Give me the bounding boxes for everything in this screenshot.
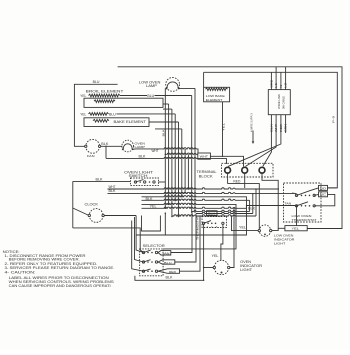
wire lamp right to bus [179,87,195,89]
wire chain B [172,189,256,270]
label YEL broil [80,94,86,98]
oven light switch body [131,178,159,186]
label TERMINAL BLOCK [197,170,217,178]
wire thermostat YEL drop [296,205,298,226]
wire low bake drop [222,102,224,157]
wire clock bottom run [73,228,144,253]
low oven thermostat body [284,183,322,222]
svg-text:GRD: GRD [271,80,274,88]
wire indicator right lead [230,208,235,268]
svg-text:YEL: YEL [80,94,86,98]
wire switch to bus [159,181,166,183]
svg-text:TAN: TAN [284,202,291,206]
wire row W5 [142,203,237,249]
label BLK fan [101,142,109,146]
label YEL row W6 [150,205,157,209]
svg-text:GRN: GRN [285,124,288,132]
lamp low oven filament [167,82,178,88]
label lead BLK [271,123,274,132]
svg-text:BLK: BLK [101,142,109,146]
lamp low oven indicator envelope [259,225,270,236]
lamp oven indicator envelope [214,260,228,274]
svg-text:BLOCK: BLOCK [199,174,214,178]
selector body [140,249,164,276]
label BLU top [93,80,100,84]
lamp oven terminals [122,148,134,150]
label BLU broil [147,94,154,98]
label BLK clock row [109,189,117,193]
wire RED row [228,184,260,231]
label BAKE ELEMENT [114,120,147,124]
wire clock right lead [104,215,136,217]
wire low oven ind right lead [272,228,285,230]
svg-text:LIGHT: LIGHT [274,242,286,246]
power cord terminal box [268,90,290,115]
label YEL bake [80,112,86,116]
resistor bake element run2 [93,119,109,122]
tag BLU [158,260,175,265]
wire center loop inner [142,216,161,232]
tag TAN [158,251,171,256]
wire thermostat right leg [221,225,223,261]
wire supply lead 4 [285,115,287,133]
label WHT clock row [109,185,117,189]
label GRD [271,80,274,88]
svg-text:RED: RED [233,180,240,184]
selector row3 contacts [142,269,157,272]
svg-text:BLK: BLK [96,177,104,181]
label CLOCK [85,203,100,207]
svg-text:WHT: WHT [152,149,160,153]
wire L1 stub [275,67,277,90]
svg-text:YEL: YEL [221,122,225,131]
wire bus vertical 9 [191,96,193,213]
oven cavity outline [74,84,117,146]
label LOW OVEN INDICATOR LIGHT [274,234,295,246]
svg-text:BLU: BLU [164,261,172,265]
tag NC [319,192,328,197]
svg-text:N: N [280,84,283,87]
svg-text:FAN: FAN [87,154,95,158]
notice text block [3,250,115,288]
lamp oven indicator terminals [213,266,230,273]
label LOW OVEN LAMP [139,80,161,88]
terminal post 2 [242,167,248,173]
wire broil lower out [163,108,172,110]
svg-text:BLU: BLU [147,94,154,98]
wire bus vertical 1 [165,88,167,209]
svg-text:3W CABLE: 3W CABLE [282,96,286,109]
wire selector feed stair2 [132,221,144,272]
svg-text:LIGHT: LIGHT [240,268,252,272]
resistor bake element run1 [89,113,109,116]
tag WHT box [198,153,211,159]
svg-text:BAKE ELEMENT: BAKE ELEMENT [114,120,147,124]
clock terminals [88,214,104,216]
label C contact [292,191,295,195]
svg-text:CAN CAUSE IMPROPER AND DANGERO: CAN CAUSE IMPROPER AND DANGEROUS OPERATI [9,284,111,288]
label BLK switch feed [96,177,104,181]
wire supply lead 3 [228,115,281,167]
label N pin [280,84,283,87]
wire L2 inner rail [204,72,338,188]
svg-text:CLOCK: CLOCK [85,203,100,207]
wire bus vertical 8 [188,154,190,189]
label OVEN INDICATOR LIGHT [240,260,263,272]
selector row2 contacts [142,260,157,263]
wire row W1 [108,188,280,190]
wire center loop [136,212,166,235]
wire post1 leg [227,174,229,184]
wire selector feed stair1 [135,217,144,262]
wire bus vertical 5 [178,122,180,217]
wire bake box out [149,121,179,123]
wire L2 stub [285,67,287,90]
svg-text:BEFORE REMOVING WIRE COVER.: BEFORE REMOVING WIRE COVER. [9,257,80,261]
thermostat pin numbers [207,227,219,229]
label BLK row W4 [146,197,154,201]
svg-text:BLK: BLK [208,211,216,215]
svg-text:BLK: BLK [109,189,117,193]
low bake element body [204,87,230,102]
wire lower feed [155,128,182,130]
wire row W3 [142,196,247,236]
bake element body [84,118,149,127]
svg-text:BLU: BLU [109,112,116,116]
wire RED run [180,270,201,271]
wire L1 top rail [118,67,342,229]
thermostat contacts [202,221,224,225]
svg-text:LAMP: LAMP [146,84,157,88]
resistor broil element run2 [94,100,115,103]
wire fan to lamp [101,145,123,147]
wire broil box out [163,103,169,105]
terminal block body [222,163,274,177]
label TAN contact [284,202,291,206]
label OVEN LIGHT SWITCH [124,171,153,179]
label BLK bottom [166,276,174,280]
svg-text:WHT: WHT [275,123,278,132]
svg-text:BLK: BLK [166,276,174,280]
wire bus vertical 2 [168,104,170,205]
wire bus vertical 4 [174,114,176,201]
lamp low oven terminals [165,87,179,89]
label YEL low oven ind [239,225,246,229]
label BROIL ELEMENT [86,89,125,93]
svg-text:BLK: BLK [161,129,165,136]
low oven thermostat row2 [295,202,321,207]
label THERMOSTAT vertical [195,216,199,240]
label RED terminal [233,180,240,184]
fan terminals [85,145,101,147]
label L2 pin [285,82,288,88]
label lead WHT [275,123,278,132]
wire post3 leg [262,174,278,229]
label BLU bake [109,112,116,116]
4-wire supply arrow [252,131,255,145]
svg-text:4 WIRE SUPPLY: 4 WIRE SUPPLY [250,113,253,132]
lamp oven filament [123,144,132,149]
wire bus vertical 7 [184,149,186,194]
svg-text:THERMOSTAT: THERMOSTAT [292,218,317,222]
label BLK right nest [248,206,256,210]
wire clock left branch [72,181,74,228]
wire row W4 [142,199,250,200]
thermostat body [202,217,227,228]
wire thermostat left leg [203,225,205,281]
svg-text:BLK: BLK [139,154,147,158]
tag NO [319,185,328,190]
svg-text:YEL: YEL [292,227,300,231]
selector row1 contacts [142,250,157,253]
label 4 WIRE SUPPLY [250,113,253,132]
wire broil BLU to bus [155,95,192,97]
label YEL indicator [212,254,219,258]
wire BLU run [175,260,196,263]
wire bake to bus [117,113,176,115]
label WHT lamp [152,149,160,153]
lamp oven envelope [122,140,134,152]
terminal post 3 [259,167,265,173]
power cord box text [277,94,286,109]
wire row mid [165,153,198,155]
svg-text:THERMOSTAT: THERMOSTAT [195,216,199,240]
wire NO out [328,187,338,189]
label L1 pin [275,82,278,88]
clock motor envelope [89,209,103,223]
wire indicator left lead [204,267,214,269]
svg-text:BLK: BLK [271,123,274,132]
wire YEL low oven run [231,215,259,230]
wire lamp WHT run [133,148,136,150]
tag YEL low oven [285,226,307,231]
wire BLK under-lamp run [105,146,226,164]
svg-text:SELECTOR: SELECTOR [143,244,166,248]
fan motor envelope [86,139,100,153]
wire chain C [196,194,253,262]
wire NC loop [321,194,335,205]
label SELECTOR [143,244,166,248]
wire bus vertical 10 [194,88,196,212]
svg-text:RED: RED [169,270,177,274]
wire N stub [280,72,282,89]
svg-text:P-9: P-9 [332,116,336,123]
svg-text:ELEMENT: ELEMENT [206,98,223,102]
svg-text:3- SERVICER PLEASE RETURN DIAG: 3- SERVICER PLEASE RETURN DIAGRAM TO RAN… [5,266,115,270]
wire supply lead 1 [263,115,272,167]
wire selector feed stair3 [136,235,143,253]
wire chain D [192,200,250,251]
tag RED [158,269,180,274]
wire bus vertical 3 [171,109,173,217]
wire broil mid [120,95,147,97]
svg-text:WIRE LINK: WIRE LINK [277,94,281,109]
svg-text:LAMP: LAMP [135,145,146,149]
svg-text:4- CAUTION:: 4- CAUTION: [5,271,36,275]
wire WHT to tag [136,148,199,153]
wire post2 leg [244,174,246,189]
lamp low oven envelope [166,78,180,92]
lamp low oven indicator terminals [258,229,272,235]
wire bus vertical 6 [181,129,183,198]
label BLK thermostat [207,211,218,216]
wire WHT tag to block [210,156,243,167]
low oven thermostat row1 [295,188,318,197]
label lead RED [280,124,283,132]
svg-text:YEL: YEL [239,225,246,229]
label BLK under-lamp [139,154,147,158]
svg-text:BROIL ELEMENT: BROIL ELEMENT [86,89,125,93]
wire bottom BLK run [135,276,204,281]
wire clock BLK to switch [73,180,131,182]
oven light switch contacts [134,180,155,184]
wire row W6 [142,206,297,209]
wire TAN run [171,251,192,252]
resistor broil element run1 [89,94,120,97]
label lead GRN [285,124,288,132]
svg-text:YEL: YEL [80,112,86,116]
resistor low bake element [206,88,228,91]
svg-text:BLU: BLU [93,80,100,84]
svg-text:TAN: TAN [162,251,170,255]
label P-9 [332,116,336,123]
svg-text:YEL: YEL [212,254,219,258]
wire row W2 [108,192,297,194]
terminal post 1 [225,167,231,173]
broil element body [84,98,163,107]
svg-text:NO: NO [320,186,327,190]
svg-text:RED: RED [280,124,283,132]
label BLK bus vertical [161,129,165,136]
label LOW BAKE ELEMENT [206,94,225,102]
wire clock feed jog [73,208,89,216]
label LOW OVEN THERMOSTAT [292,214,317,222]
label YEL low bake drop [221,122,225,131]
wire supply lead 2 [246,115,277,167]
wire low bake feed [203,72,205,87]
label FAN [87,154,95,158]
wire GRD stub [270,72,272,89]
label OVEN LAMP [135,141,146,149]
